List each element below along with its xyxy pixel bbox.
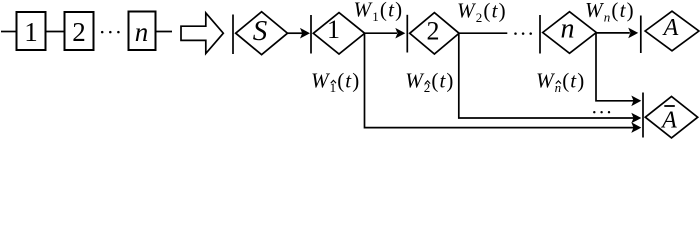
svg-text:Wn(t): Wn(t) [585,0,635,24]
svg-text:n: n [561,13,575,44]
svg-text:2: 2 [72,17,86,47]
svg-text:n: n [135,17,149,47]
svg-text:1: 1 [327,15,340,44]
svg-text:2: 2 [427,17,440,46]
svg-text:1: 1 [24,17,38,47]
svg-text:W2(t): W2(t) [405,69,454,96]
svg-text:W1(t): W1(t) [354,0,404,24]
svg-text:A: A [660,108,677,134]
svg-text:W1(t): W1(t) [311,68,360,95]
svg-text:S: S [253,15,268,47]
svg-text:Wn(t): Wn(t) [536,69,585,96]
svg-text:A: A [662,15,679,41]
svg-text:W2(t): W2(t) [457,0,507,25]
